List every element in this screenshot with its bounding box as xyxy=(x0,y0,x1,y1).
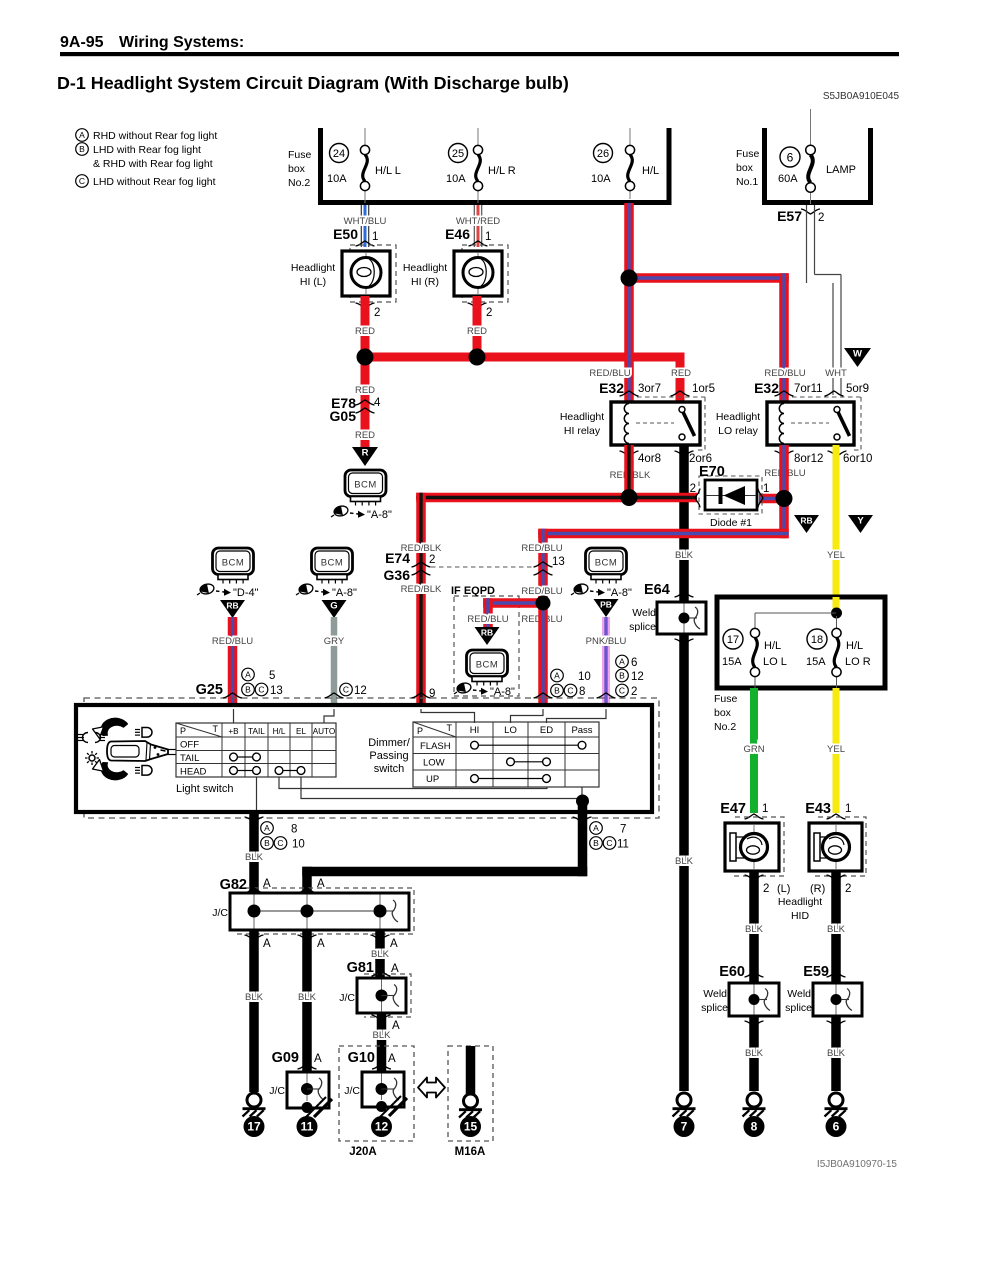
svg-text:4: 4 xyxy=(374,397,381,409)
svg-text:H/L: H/L xyxy=(846,640,863,652)
svg-text:12: 12 xyxy=(375,1120,389,1134)
svg-text:E60: E60 xyxy=(719,964,745,980)
destination triangle G xyxy=(322,600,347,618)
destination triangle RB (D-4) xyxy=(220,600,245,618)
svg-text:A: A xyxy=(264,823,270,833)
svg-text:splice: splice xyxy=(785,1002,812,1014)
label Headlight LO relay xyxy=(716,411,760,437)
svg-text:A: A xyxy=(390,938,398,950)
wire PNK/BLU to switch xyxy=(586,617,627,707)
svg-text:B: B xyxy=(619,671,625,681)
svg-text:No.1: No.1 xyxy=(736,176,758,188)
svg-text:"D-4": "D-4" xyxy=(233,587,259,599)
svg-text:E59: E59 xyxy=(803,964,829,980)
svg-text:C: C xyxy=(343,685,349,695)
svg-text:Fuse: Fuse xyxy=(714,693,738,705)
connector E70 pin 1 xyxy=(758,483,769,508)
connector E43 pin 2 xyxy=(827,875,852,895)
svg-text:RED: RED xyxy=(671,368,691,379)
connector RED/BLU pins 10/8 xyxy=(534,669,591,698)
wire WHT from fuse box No.1 xyxy=(807,205,842,395)
svg-text:GRY: GRY xyxy=(324,636,345,647)
svg-text:H/L R: H/L R xyxy=(488,165,516,177)
svg-text:RED: RED xyxy=(355,430,375,441)
connector GRY pin xyxy=(325,683,367,698)
E60 chevron bottom xyxy=(745,1021,764,1026)
label Dimmer/Passing switch xyxy=(368,737,410,775)
ground number 7 xyxy=(674,1116,695,1137)
switch internal wire TAIL-gnd xyxy=(256,777,258,810)
svg-text:BCM: BCM xyxy=(595,558,618,569)
wire RED from E46 pin2 xyxy=(467,296,487,357)
wire RED/BLU from fuse 26 xyxy=(624,203,634,402)
svg-text:No.2: No.2 xyxy=(714,721,736,733)
ground hatch G09 xyxy=(305,1097,332,1118)
label Light switch xyxy=(176,783,233,795)
junction connector G81 J/C box xyxy=(339,978,406,1013)
node junction RED/BLK xyxy=(621,489,638,506)
wire WHT/RED from fuse 25 xyxy=(456,205,500,247)
label G82 xyxy=(220,877,247,893)
svg-text:12: 12 xyxy=(631,671,644,683)
labels E32 LO relay pins top xyxy=(754,368,869,396)
wire WHT/BLU from fuse 24 xyxy=(344,205,387,247)
weld splice E60 xyxy=(701,983,779,1016)
connector pins A7 BC11 xyxy=(573,817,629,851)
fuse box No.1 outline xyxy=(736,128,873,205)
G81 dashed box xyxy=(364,974,411,1017)
svg-text:BLK: BLK xyxy=(371,949,390,960)
E47 dashed box xyxy=(731,817,784,876)
svg-text:J/C: J/C xyxy=(269,1085,285,1097)
svg-text:6: 6 xyxy=(631,657,637,669)
svg-text:A: A xyxy=(263,938,271,950)
label RED/BLU right xyxy=(521,614,562,625)
switch internal wire LO xyxy=(511,709,544,723)
ground hatch G10 xyxy=(380,1096,407,1117)
label E59 xyxy=(803,964,829,980)
svg-text:E43: E43 xyxy=(805,801,831,817)
light switch contacts xyxy=(230,753,305,774)
svg-text:P: P xyxy=(180,726,186,736)
svg-text:8or12: 8or12 xyxy=(794,453,823,465)
svg-text:Wiring Systems:: Wiring Systems: xyxy=(119,34,244,51)
destination triangle Y xyxy=(848,515,873,533)
svg-text:1: 1 xyxy=(763,483,769,495)
svg-text:6or10: 6or10 xyxy=(843,453,872,465)
light switch dashed connector box xyxy=(84,698,659,818)
svg-text:Headlight: Headlight xyxy=(716,411,760,423)
ground number 6 xyxy=(826,1116,847,1137)
icon rotate arrow bottom xyxy=(93,760,128,780)
E60 chevron top xyxy=(745,972,764,977)
svg-text:Headlight: Headlight xyxy=(291,262,335,274)
svg-text:4or8: 4or8 xyxy=(638,453,661,465)
svg-text:RED/BLU: RED/BLU xyxy=(521,543,562,554)
svg-text:7: 7 xyxy=(620,824,626,836)
switch internal wire HI xyxy=(421,709,475,723)
svg-text:LO R: LO R xyxy=(845,656,871,668)
svg-text:15A: 15A xyxy=(806,656,826,668)
ground symbol 15 xyxy=(459,1094,482,1118)
dimmer passing switch table xyxy=(413,722,599,787)
headlight HI (R) bulb E46 xyxy=(454,251,502,296)
svg-text:E64: E64 xyxy=(644,582,670,598)
svg-text:box: box xyxy=(288,163,306,175)
svg-text:BLK: BLK xyxy=(675,856,694,867)
svg-text:E74: E74 xyxy=(385,550,410,566)
wire BLK from HI relay switch xyxy=(675,445,694,1091)
svg-text:8: 8 xyxy=(579,686,585,698)
BCM module (A-8) below R xyxy=(345,470,386,506)
icon switch lever xyxy=(107,741,177,761)
svg-text:HID: HID xyxy=(791,910,810,922)
svg-text:D-1 Headlight System Circuit D: D-1 Headlight System Circuit Diagram (Wi… xyxy=(57,73,569,93)
svg-text:YEL: YEL xyxy=(827,550,845,561)
svg-text:A: A xyxy=(317,938,325,950)
svg-text:13: 13 xyxy=(270,685,283,697)
labels (L)/(R) Headlight HID xyxy=(777,883,825,922)
node junction YEL in fuse box xyxy=(831,608,842,619)
destination triangle RB in IF EQPD xyxy=(475,627,500,645)
E64 chevron bottom xyxy=(675,639,694,644)
svg-text:E32: E32 xyxy=(754,380,779,396)
ground number 8 xyxy=(744,1116,765,1137)
svg-text:B: B xyxy=(79,144,85,154)
svg-text:10: 10 xyxy=(292,839,305,851)
svg-text:E46: E46 xyxy=(445,226,470,242)
svg-text:BLK: BLK xyxy=(245,852,264,863)
svg-text:RED/BLU: RED/BLU xyxy=(589,368,630,379)
label Headlight HI (L) xyxy=(291,262,335,288)
svg-text:Fuse: Fuse xyxy=(736,148,760,160)
label G81 xyxy=(347,960,374,976)
svg-text:A: A xyxy=(554,671,560,681)
J20A dashed box xyxy=(339,1046,414,1141)
svg-text:G09: G09 xyxy=(272,1050,299,1066)
svg-text:B: B xyxy=(264,838,270,848)
wire BLK G82 to G81 xyxy=(371,930,390,978)
svg-text:15: 15 xyxy=(464,1120,478,1134)
fuse 26 stub wire xyxy=(629,128,631,199)
svg-text:C: C xyxy=(619,686,625,696)
svg-text:A: A xyxy=(388,1053,396,1065)
wire YEL into lower fuse box xyxy=(833,597,840,613)
svg-text:E50: E50 xyxy=(333,226,358,242)
connector E57 pin 2 xyxy=(777,208,824,224)
svg-text:H/L: H/L xyxy=(642,165,659,177)
fuse 17 (15A H/L LO L) xyxy=(722,628,787,676)
fuse 24 (10A H/L L) xyxy=(327,144,401,191)
svg-text:P: P xyxy=(417,726,423,736)
LO relay connector chevrons top xyxy=(775,391,844,396)
headlight HI (L) bulb E50 xyxy=(342,251,390,296)
svg-text:5or9: 5or9 xyxy=(846,383,869,395)
svg-text:RED: RED xyxy=(467,326,487,337)
fuse 6 stub wire xyxy=(810,109,812,204)
svg-text:A: A xyxy=(619,657,625,667)
svg-text:LHD with Rear fog light: LHD with Rear fog light xyxy=(93,144,201,156)
svg-text:FLASH: FLASH xyxy=(420,741,451,752)
svg-text:RED: RED xyxy=(355,326,375,337)
svg-text:splice: splice xyxy=(701,1002,728,1014)
label J20A xyxy=(349,1146,377,1158)
svg-text:EL: EL xyxy=(296,727,306,736)
svg-text:18: 18 xyxy=(811,634,823,646)
svg-text:No.2: No.2 xyxy=(288,177,310,189)
svg-text:1or5: 1or5 xyxy=(692,383,715,395)
fuse box internal wires xyxy=(755,613,837,688)
relay E32 Headlight HI relay box xyxy=(611,402,700,445)
svg-text:8: 8 xyxy=(751,1120,758,1134)
svg-text:G81: G81 xyxy=(347,960,374,976)
svg-text:2: 2 xyxy=(845,883,851,895)
wire BLK G81 to G10 xyxy=(373,1013,392,1072)
svg-text:LOW: LOW xyxy=(423,758,445,769)
svg-text:OFF: OFF xyxy=(180,740,199,751)
node junction RED/BLU at diode xyxy=(776,490,793,507)
headlight HID (L) connector E47 xyxy=(725,823,779,871)
junction connector G09 J/C box xyxy=(269,1072,329,1113)
svg-text:AUTO: AUTO xyxy=(313,727,336,736)
svg-text:Weld: Weld xyxy=(703,988,727,1000)
svg-text:17: 17 xyxy=(247,1120,261,1134)
connector E70 pin 2 xyxy=(690,483,700,508)
wire RED/BLU from RB to G25 xyxy=(212,617,253,707)
fuse 25 (10A H/L R) xyxy=(446,144,516,191)
wire YEL from LO relay switch xyxy=(827,445,845,613)
svg-text:Pass: Pass xyxy=(571,725,592,736)
svg-text:WHT: WHT xyxy=(825,368,847,379)
svg-text:(L): (L) xyxy=(777,883,790,895)
M16A dashed box xyxy=(448,1046,493,1141)
svg-text:E57: E57 xyxy=(777,208,802,224)
wire RED/BLU diode to LO coil node xyxy=(759,494,784,504)
connector E43 pin 1 xyxy=(805,801,851,819)
key symbol to A-8 (R) xyxy=(331,505,392,521)
svg-text:BLK: BLK xyxy=(827,924,846,935)
headlight HI (L) dashed box xyxy=(350,245,396,302)
G81 pin A bottom xyxy=(372,1015,401,1032)
icon headlight high xyxy=(135,728,152,738)
svg-text:10A: 10A xyxy=(591,173,611,185)
wire RED/BLU horizontal to pin13 xyxy=(538,529,789,603)
wire BLK G82 to ground 17 xyxy=(245,930,264,1092)
svg-text:"A-8": "A-8" xyxy=(490,686,515,698)
connector PNK/BLU pins 6/12/2 xyxy=(597,655,644,698)
ground number 12 xyxy=(371,1116,392,1137)
connector E78/G05 pin 4 xyxy=(330,395,381,424)
light switch table xyxy=(176,723,336,778)
node junction RED/BLU IF EQPD xyxy=(536,596,551,611)
svg-text:BCM: BCM xyxy=(222,558,245,569)
label G10 xyxy=(348,1050,375,1066)
svg-text:RB: RB xyxy=(481,628,493,638)
ground number 15 xyxy=(460,1116,481,1137)
svg-text:splice: splice xyxy=(629,621,656,633)
svg-text:8: 8 xyxy=(291,824,297,836)
wire GRY to switch xyxy=(324,617,345,707)
wire GRN xyxy=(743,688,764,813)
wire RED/BLU into IF EQPD xyxy=(483,598,543,627)
destination triangle PB xyxy=(594,599,619,617)
connector E46 pin 1 xyxy=(445,226,491,246)
label E60 xyxy=(719,964,745,980)
svg-text:J20A: J20A xyxy=(349,1146,377,1158)
svg-text:BCM: BCM xyxy=(354,480,377,491)
svg-text:A: A xyxy=(593,823,599,833)
svg-text:LAMP: LAMP xyxy=(826,164,856,176)
svg-text:7or11: 7or11 xyxy=(794,383,823,395)
connector E47 pin 2 xyxy=(745,875,770,895)
svg-text:M16A: M16A xyxy=(455,1146,486,1158)
svg-text:9A-95: 9A-95 xyxy=(60,34,104,51)
footer drawing code xyxy=(817,1159,898,1170)
fuse box No.2 (top) outline xyxy=(288,128,672,205)
wire BLK switch right exit xyxy=(578,801,588,876)
connector E74/G36 chevrons pin2 xyxy=(412,562,431,575)
BCM module (D-4) xyxy=(213,548,254,584)
svg-text:2: 2 xyxy=(631,686,637,698)
diagram title xyxy=(57,73,569,93)
ground number 17 xyxy=(244,1116,265,1137)
connector E74/G36 pin 9 xyxy=(412,688,436,700)
headlight HI (R) dashed box xyxy=(462,245,508,302)
svg-text:RED/BLU: RED/BLU xyxy=(764,368,805,379)
fuse 26 (10A H/L) xyxy=(591,144,659,191)
label G09 xyxy=(272,1050,299,1066)
svg-text:A: A xyxy=(314,1053,322,1065)
svg-text:E70: E70 xyxy=(699,464,725,480)
HI relay connector chevrons top xyxy=(620,391,690,396)
E64 chevron top xyxy=(675,592,694,597)
LO relay connector chevrons bottom xyxy=(775,451,847,456)
junction connector G10 J/C box xyxy=(344,1072,404,1112)
weld splice E64 xyxy=(629,602,706,634)
wire RED from E50 pin2 xyxy=(355,296,375,357)
wire RED/BLK horizontal to diode xyxy=(416,493,697,707)
G81 pin A top xyxy=(372,963,400,976)
svg-text:I5JB0A910970-15: I5JB0A910970-15 xyxy=(817,1159,898,1170)
legend variant B xyxy=(76,143,201,156)
svg-text:+B: +B xyxy=(228,727,239,736)
wire BLK horizontal to G82 xyxy=(302,867,587,893)
label RED below E78 xyxy=(355,430,375,441)
svg-text:RB: RB xyxy=(226,601,238,611)
svg-text:LO: LO xyxy=(504,725,517,736)
svg-text:IF EQPD: IF EQPD xyxy=(451,585,495,597)
switch internal wire EL to Pass xyxy=(301,777,582,801)
node RED junction at E46 xyxy=(469,349,486,366)
svg-text:10A: 10A xyxy=(446,173,466,185)
svg-text:C: C xyxy=(277,838,283,848)
IF EQPD dashed box xyxy=(451,585,519,696)
svg-text:G: G xyxy=(330,601,337,612)
svg-text:BLK: BLK xyxy=(675,550,694,561)
svg-text:RED/BLU: RED/BLU xyxy=(467,614,508,625)
svg-text:3or7: 3or7 xyxy=(638,383,661,395)
HI relay connector chevrons bottom xyxy=(620,451,694,456)
E59 chevron top xyxy=(827,972,846,977)
wire BLK switch left exit xyxy=(245,812,264,893)
svg-text:HEAD: HEAD xyxy=(180,767,207,778)
fuse box No.2 lower outline xyxy=(714,597,885,733)
svg-text:2: 2 xyxy=(429,554,435,566)
svg-text:Dimmer/: Dimmer/ xyxy=(368,737,410,749)
switch internal wire H/L to ED xyxy=(279,777,547,789)
relay E32 Headlight LO relay box xyxy=(767,402,854,445)
label RED/BLU below pin13 xyxy=(521,586,562,597)
svg-text:G82: G82 xyxy=(220,877,247,893)
svg-text:RED/BLU: RED/BLU xyxy=(212,636,253,647)
destination triangle RB right of corner xyxy=(794,515,819,533)
svg-text:2: 2 xyxy=(763,883,769,895)
icon knob sun xyxy=(85,751,99,765)
headlight HID (R) connector E43 xyxy=(809,823,862,871)
fuse 18 (15A H/L LO R) xyxy=(806,628,871,676)
label RED/BLK below pin2 xyxy=(401,584,442,595)
svg-text:LO relay: LO relay xyxy=(718,425,758,437)
svg-text:6: 6 xyxy=(787,150,794,164)
svg-text:BLK: BLK xyxy=(745,1048,764,1059)
svg-text:E47: E47 xyxy=(720,801,746,817)
svg-text:GRN: GRN xyxy=(743,744,764,755)
E59 chevron bottom xyxy=(827,1021,846,1026)
dimmer switch contacts xyxy=(471,741,586,782)
svg-text:T: T xyxy=(213,724,219,734)
svg-text:H/L: H/L xyxy=(273,727,286,736)
connector E46 pin 2 xyxy=(468,303,493,319)
G10 pin A xyxy=(372,1053,396,1069)
svg-text:A: A xyxy=(245,670,251,680)
svg-text:C: C xyxy=(567,686,573,696)
svg-text:Headlight: Headlight xyxy=(560,411,604,423)
svg-text:Weld: Weld xyxy=(632,607,656,619)
svg-text:H/L L: H/L L xyxy=(375,165,401,177)
wire BLK G82 to G09 xyxy=(298,930,317,1072)
svg-text:A: A xyxy=(317,878,325,890)
svg-text:RED/BLU: RED/BLU xyxy=(521,586,562,597)
svg-text:2: 2 xyxy=(374,307,380,319)
svg-text:BLK: BLK xyxy=(245,992,264,1003)
page header: section number and title xyxy=(60,34,899,56)
key symbol to A-8 (gray) xyxy=(296,583,357,599)
svg-text:J/C: J/C xyxy=(212,907,228,919)
svg-text:60A: 60A xyxy=(778,173,798,185)
key symbol to A-8 (IF EQPD) xyxy=(454,682,515,698)
label E64 xyxy=(644,582,670,598)
svg-text:BLK: BLK xyxy=(827,1048,846,1059)
labels E74/G36 pin13 xyxy=(521,543,564,568)
svg-text:10A: 10A xyxy=(327,173,347,185)
svg-text:B: B xyxy=(593,838,599,848)
fuse 24 stub wire xyxy=(364,128,366,203)
fuse 25 stub wire xyxy=(477,128,479,203)
connector E47 pin 1 xyxy=(720,801,768,819)
svg-text:"A-8": "A-8" xyxy=(607,587,632,599)
equivalence arrow symbol xyxy=(418,1078,445,1098)
svg-text:A: A xyxy=(263,878,271,890)
G82 dashed box xyxy=(236,888,414,934)
connector E74/G36 chevrons pin13 xyxy=(534,562,553,575)
svg-text:PNK/BLU: PNK/BLU xyxy=(586,636,627,647)
svg-text:A: A xyxy=(391,963,399,975)
svg-text:PB: PB xyxy=(600,600,612,610)
svg-text:A: A xyxy=(392,1020,400,1032)
connector pins A8 BC10 xyxy=(245,817,305,851)
E43 dashed box xyxy=(814,817,866,876)
svg-text:RB: RB xyxy=(800,516,812,526)
